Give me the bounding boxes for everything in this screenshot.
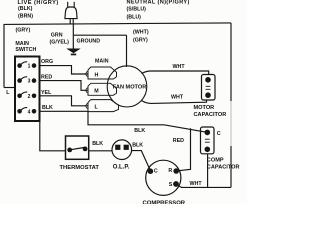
svg-text:(BRN): (BRN) xyxy=(18,13,33,19)
svg-text:H: H xyxy=(95,73,99,79)
svg-text:RED: RED xyxy=(173,138,184,144)
svg-text:COMPRESSOR: COMPRESSOR xyxy=(143,200,186,204)
svg-text:WHT: WHT xyxy=(190,181,203,187)
svg-text:2: 2 xyxy=(28,94,31,100)
svg-text:MAIN: MAIN xyxy=(95,58,109,64)
svg-text:C: C xyxy=(217,131,221,137)
svg-text:BLK: BLK xyxy=(92,141,103,147)
svg-text:BLK: BLK xyxy=(132,143,143,149)
svg-text:YEL: YEL xyxy=(41,90,52,96)
svg-text:(S/BLU): (S/BLU) xyxy=(127,6,147,12)
svg-text:1: 1 xyxy=(28,64,31,70)
svg-text:GROUND: GROUND xyxy=(77,38,101,44)
svg-text:4: 4 xyxy=(28,109,31,115)
svg-text:C: C xyxy=(154,168,158,174)
svg-text:SWITCH: SWITCH xyxy=(15,47,36,53)
svg-text:(GRY): (GRY) xyxy=(16,27,31,33)
svg-text:3: 3 xyxy=(28,79,31,85)
svg-text:(BLK): (BLK) xyxy=(18,6,33,12)
svg-text:S: S xyxy=(169,182,173,188)
svg-text:THERMOSTAT: THERMOSTAT xyxy=(60,165,100,171)
svg-text:(BLU): (BLU) xyxy=(127,14,142,20)
svg-text:(G/YEL): (G/YEL) xyxy=(50,39,70,45)
svg-text:O.L.P.: O.L.P. xyxy=(113,164,130,170)
svg-text:BLK: BLK xyxy=(134,128,145,134)
svg-text:COMP: COMP xyxy=(207,157,224,163)
svg-text:ORG: ORG xyxy=(41,59,53,65)
svg-text:MAIN: MAIN xyxy=(15,41,29,47)
svg-text:MOTOR: MOTOR xyxy=(194,105,215,111)
svg-text:M: M xyxy=(94,89,99,95)
svg-text:R: R xyxy=(168,168,172,174)
svg-text:WHT: WHT xyxy=(173,64,186,70)
svg-text:CAPACITOR: CAPACITOR xyxy=(207,164,240,170)
svg-text:WHT: WHT xyxy=(171,95,184,101)
svg-text:(GRY): (GRY) xyxy=(133,38,148,44)
svg-text:CAPACITOR: CAPACITOR xyxy=(194,112,227,118)
svg-text:FAN MOTOR: FAN MOTOR xyxy=(113,84,146,90)
svg-text:NEUTRAL (N)(P/GRY): NEUTRAL (N)(P/GRY) xyxy=(127,0,190,6)
svg-text:GRN: GRN xyxy=(51,33,63,39)
svg-text:RED: RED xyxy=(41,74,52,80)
svg-text:BLK: BLK xyxy=(42,105,53,111)
svg-text:(WHT): (WHT) xyxy=(133,30,149,36)
